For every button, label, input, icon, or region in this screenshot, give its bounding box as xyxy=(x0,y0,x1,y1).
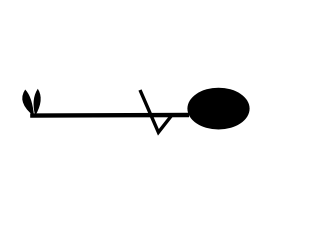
V check mark xyxy=(140,90,173,132)
filled ellipse (head) xyxy=(187,88,249,130)
left petal (leaf) xyxy=(22,90,34,117)
right petal (leaf) xyxy=(34,89,41,116)
horizontal stick (wire) xyxy=(30,113,189,118)
